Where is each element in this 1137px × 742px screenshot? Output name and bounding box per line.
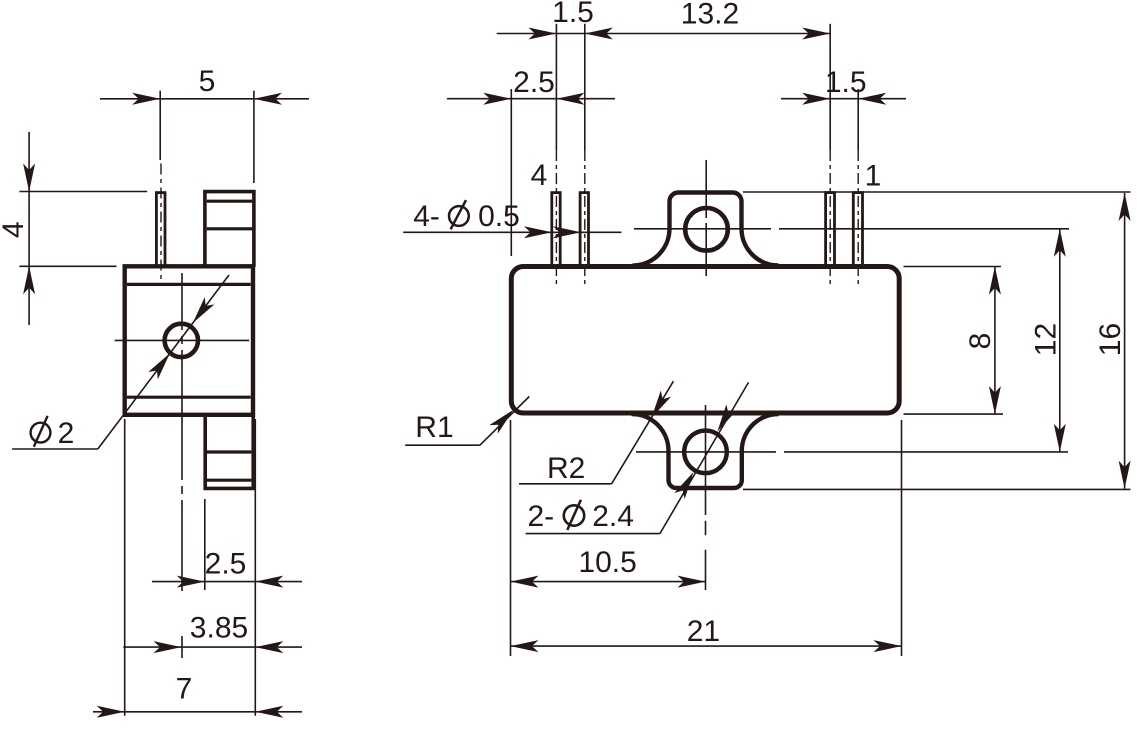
label R2 leader diagonal bbox=[612, 381, 674, 484]
left view body outline bbox=[125, 266, 253, 415]
label 2-dia-2.4 text bbox=[528, 500, 634, 533]
svg-text:4: 4 bbox=[0, 221, 30, 238]
dimension 2.5 line right bbox=[255, 576, 283, 588]
dimension 4 line bottom bbox=[23, 266, 35, 294]
dimension 3.85 line left bbox=[123, 646, 302, 648]
dimension 16 extension line bottom bbox=[743, 488, 1131, 490]
label 2-dia-2.4 leader underline bbox=[526, 533, 660, 535]
svg-text:16: 16 bbox=[1094, 323, 1127, 356]
right view top tab hole bbox=[685, 208, 728, 251]
label diameter 2 arrow lower bbox=[148, 350, 174, 380]
dimension 8 line bbox=[994, 267, 996, 415]
svg-text:2-: 2- bbox=[528, 500, 555, 533]
svg-text:2: 2 bbox=[58, 417, 75, 450]
left view mounting hole bbox=[165, 324, 198, 357]
left view bottom tab bbox=[205, 414, 253, 489]
left view top lead bbox=[156, 193, 165, 267]
label diameter 2 leader underline bbox=[12, 448, 98, 450]
left view bottom tab inner line 1 bbox=[207, 450, 251, 453]
svg-text:4: 4 bbox=[531, 159, 548, 192]
label 4-dia-0.5 leader bbox=[403, 231, 621, 233]
svg-text:2.5: 2.5 bbox=[205, 548, 247, 581]
dimension 10.5 and 21 extension line left bbox=[510, 420, 512, 656]
dimension 2.5 top extension line bbox=[510, 89, 512, 256]
left view body bottom inner line bbox=[127, 396, 251, 399]
dimension 5 line right bbox=[254, 93, 282, 105]
dimension 16 line bbox=[1124, 193, 1126, 489]
bottom dims extension line tab left bbox=[204, 499, 206, 590]
label 4-dia-0.5 text bbox=[413, 200, 520, 233]
top hole horizontal centerline bbox=[634, 228, 1069, 230]
pin 1 centerline bbox=[857, 89, 859, 150]
dimension 5 line left bbox=[100, 98, 309, 100]
dimension 2.5 line left bbox=[152, 581, 302, 583]
left view top tab bbox=[205, 192, 254, 267]
dimension 8 extension line top bbox=[904, 266, 1002, 268]
left view top tab inner line 1 bbox=[207, 200, 253, 203]
dimension 3.85 line right bbox=[255, 641, 283, 653]
dimension 16 extension line top bbox=[743, 191, 1131, 193]
bottom hole horizontal centerline bbox=[636, 451, 1068, 453]
dimension 1.5 right line bbox=[781, 98, 906, 100]
left view bottom tab inner line 2 bbox=[207, 479, 251, 482]
pin 2 centerline bbox=[829, 24, 831, 150]
dimension 4 line top bbox=[28, 132, 30, 325]
svg-text:4-: 4- bbox=[413, 200, 440, 233]
right view pin 3 bbox=[580, 193, 588, 267]
label diameter 2 arrow upper bbox=[188, 297, 214, 327]
label R2 leader underline bbox=[519, 483, 612, 485]
svg-text:1.5: 1.5 bbox=[552, 0, 594, 29]
label 2-dia-2.4 leader diagonal bbox=[660, 382, 749, 533]
dimension 21 extension line right bbox=[901, 420, 903, 656]
dimension 1.5 left line bbox=[497, 33, 558, 35]
dimension 5 extension line left bbox=[159, 91, 161, 160]
dimension 12 line bbox=[1059, 229, 1061, 452]
svg-text:3.85: 3.85 bbox=[190, 612, 248, 645]
left view hole horizontal centerline bbox=[115, 339, 250, 341]
dimension 4 extension line bottom bbox=[19, 265, 116, 267]
label diameter 2 leader diagonal bbox=[98, 275, 229, 449]
bottom hole vertical centerline bbox=[705, 405, 707, 515]
svg-text:1: 1 bbox=[865, 159, 882, 192]
right view pin 4 bbox=[552, 193, 560, 267]
svg-text:7: 7 bbox=[176, 673, 193, 706]
left view vertical centerline bbox=[181, 273, 183, 658]
right view body outline bbox=[511, 267, 899, 414]
left view top tab inner line 2 bbox=[207, 227, 253, 230]
pin 3 centerline bbox=[584, 24, 586, 150]
svg-text:13.2: 13.2 bbox=[681, 0, 739, 31]
right view bottom mounting tab bbox=[632, 414, 779, 488]
label R1 leader underline bbox=[405, 444, 480, 446]
bottom tab hole bbox=[684, 431, 727, 474]
left view body top inner line bbox=[127, 283, 251, 286]
dimension 2.5 top line bbox=[447, 98, 615, 100]
left view top lead centerline bbox=[160, 164, 162, 284]
dimension 10.5 line bbox=[511, 581, 706, 583]
right view pin 2 bbox=[826, 193, 835, 267]
svg-text:10.5: 10.5 bbox=[578, 546, 636, 579]
top hole vertical centerline bbox=[705, 160, 707, 276]
label diameter 2 symbol bbox=[31, 416, 75, 450]
bottom dims extension line right edge bbox=[254, 419, 256, 716]
svg-text:R1: R1 bbox=[415, 411, 453, 444]
svg-text:5: 5 bbox=[199, 65, 216, 98]
dimension 4 extension line top bbox=[19, 191, 147, 193]
bottom dims extension line left edge bbox=[124, 419, 126, 716]
dimension 7 line bbox=[93, 711, 302, 713]
svg-text:2.4: 2.4 bbox=[592, 500, 634, 533]
svg-text:8: 8 bbox=[964, 333, 997, 350]
label R1 leader diagonal bbox=[480, 397, 529, 446]
right view top mounting tab bbox=[633, 193, 779, 266]
dimension 5 extension line right bbox=[253, 91, 255, 183]
svg-text:2.5: 2.5 bbox=[513, 66, 555, 99]
pin 4 centerline bbox=[555, 24, 557, 150]
right view pin 1 bbox=[853, 193, 862, 267]
svg-text:1.5: 1.5 bbox=[825, 66, 867, 99]
dimension 21 line bbox=[511, 645, 902, 647]
dimension 13.2 line bbox=[556, 33, 830, 35]
svg-text:R2: R2 bbox=[547, 452, 585, 485]
svg-text:12: 12 bbox=[1029, 323, 1062, 356]
svg-text:21: 21 bbox=[687, 615, 720, 648]
svg-text:0.5: 0.5 bbox=[478, 200, 520, 233]
dimension 8 extension line bottom bbox=[904, 413, 1004, 415]
